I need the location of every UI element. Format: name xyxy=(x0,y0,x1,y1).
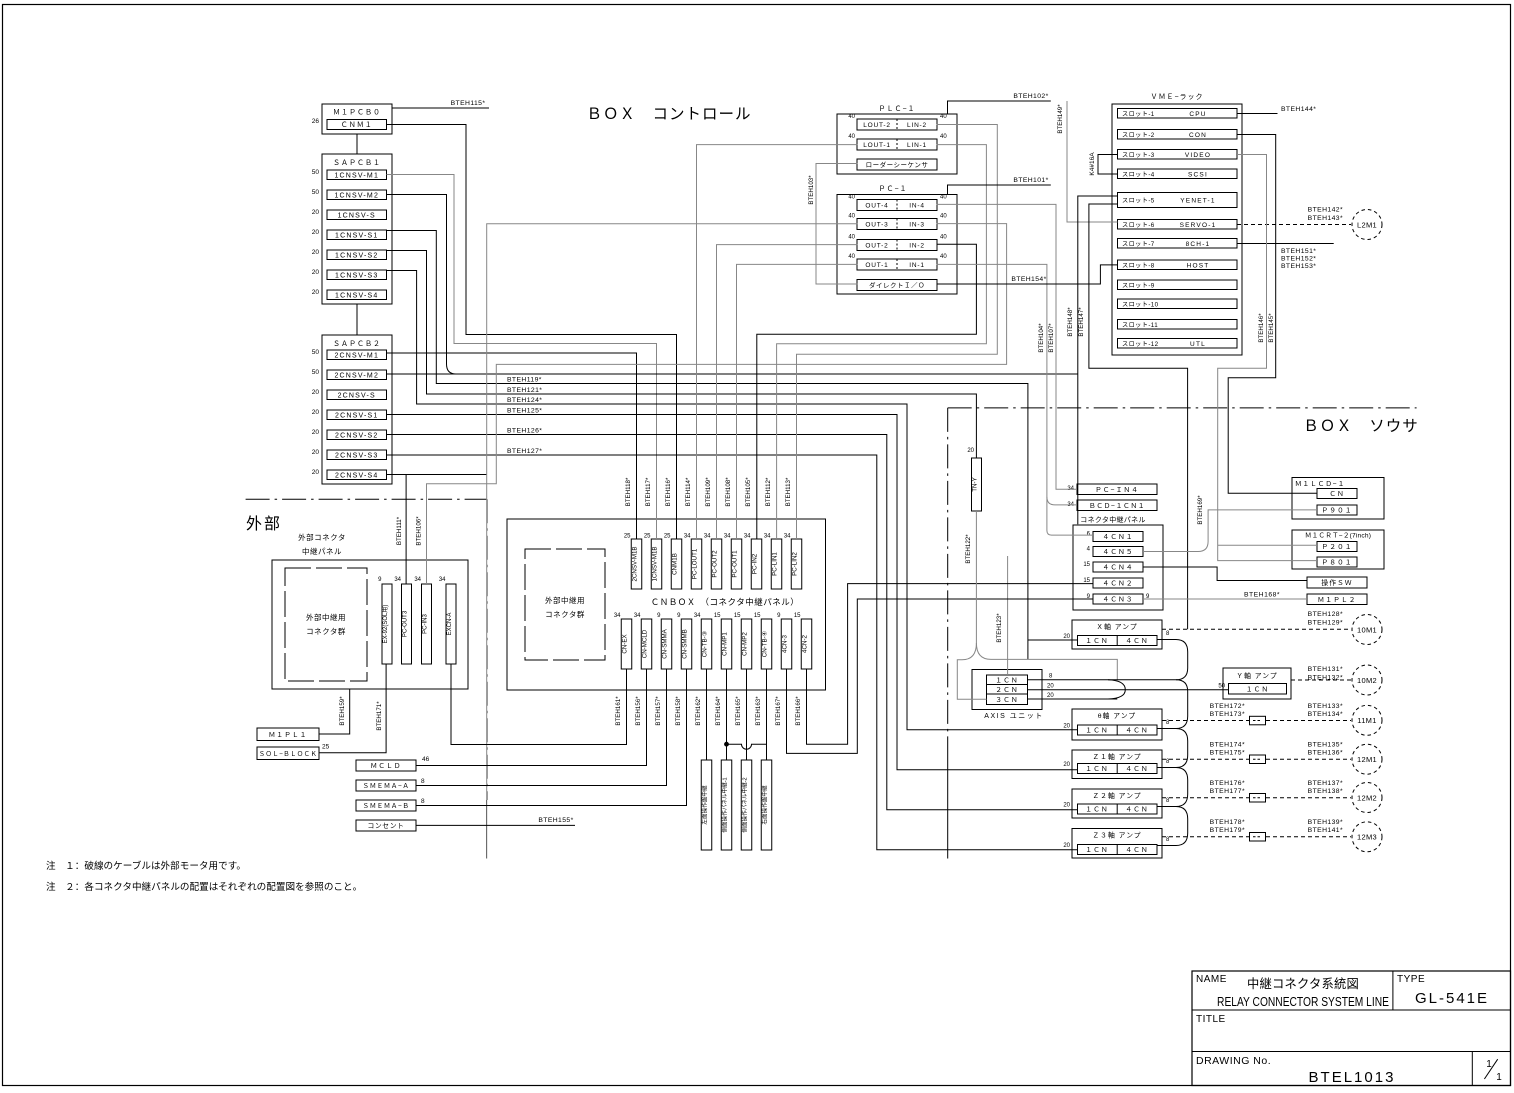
svg-text:BTEH118*: BTEH118* xyxy=(625,477,632,506)
svg-text:Ｍ１ＣＲＴ−２(7inch): Ｍ１ＣＲＴ−２(7inch) xyxy=(1305,533,1371,540)
svg-text:IN-3: IN-3 xyxy=(909,222,924,229)
svg-text:25: 25 xyxy=(644,534,651,540)
unit 側面操作パネル中継-2 xyxy=(741,760,752,850)
svg-text:BTEH163*: BTEH163* xyxy=(755,696,762,726)
wire TN-Y down BTEH122* xyxy=(975,511,977,643)
svg-text:ＰＣ−１: ＰＣ−１ xyxy=(878,185,907,193)
svg-text:Ｍ１ＰＣＢ０: Ｍ１ＰＣＢ０ xyxy=(333,109,381,117)
svg-text:BTEH136*: BTEH136* xyxy=(1308,750,1343,757)
connector 1CNSV-S4 xyxy=(327,290,387,300)
svg-text:ＢＣＤ−１ＣＮ１: ＢＣＤ−１ＣＮ１ xyxy=(1089,503,1145,510)
svg-text:BTEH149*: BTEH149* xyxy=(1057,104,1064,134)
slot スロット-2 CON xyxy=(1118,130,1238,140)
connector CN-TB-③ xyxy=(701,619,712,669)
wire EXCN-A to CN-EX (BTEH161*) xyxy=(451,664,627,745)
svg-text:SCSI: SCSI xyxy=(1188,171,1208,178)
unit 左面操作盤中継 xyxy=(701,760,712,850)
svg-text:VIDEO: VIDEO xyxy=(1185,152,1211,159)
svg-text:BTEH119*: BTEH119* xyxy=(507,377,542,384)
svg-text:4CN-2: 4CN-2 xyxy=(802,635,809,653)
svg-text:34: 34 xyxy=(634,613,641,619)
svg-text:ＣＮＭ１: ＣＮＭ１ xyxy=(341,121,373,129)
svg-text:50: 50 xyxy=(312,369,320,376)
svg-text:４ＣＮ: ４ＣＮ xyxy=(1125,766,1148,773)
svg-text:BTEH102*: BTEH102* xyxy=(1013,93,1048,100)
svg-text:BTEH145*: BTEH145* xyxy=(1268,313,1275,343)
dashed box external relay connector group xyxy=(285,568,367,681)
wire brace arc lower xyxy=(1108,690,1125,699)
svg-text:PC-IN2: PC-IN2 xyxy=(752,553,759,574)
svg-text:20: 20 xyxy=(1063,843,1070,849)
connector 1CNSV-M1B xyxy=(651,539,662,589)
motor 11M1 xyxy=(1352,705,1382,735)
dashed cable SERVO-1 to L2M1 xyxy=(1237,224,1351,226)
connector P801 xyxy=(1317,557,1357,567)
unit Z2-axis amp xyxy=(1072,789,1162,818)
svg-text:４ＣＮ: ４ＣＮ xyxy=(1125,638,1148,645)
connector 1CNSV-S3 xyxy=(327,270,387,280)
unit Z3-axis amp xyxy=(1072,829,1162,859)
svg-text:CN-MP2: CN-MP2 xyxy=(742,632,749,656)
wire 1CNSV-S3 BTEH124* bus to theta amp 1CN xyxy=(387,271,1078,730)
connector PC-OUT3 xyxy=(402,584,412,664)
svg-text:コネクタ群: コネクタ群 xyxy=(545,609,585,619)
wire CN-MP2 down xyxy=(746,669,748,760)
wire BTEH115* from M1PCB0 xyxy=(392,107,489,109)
svg-text:外部: 外部 xyxy=(246,515,282,533)
svg-text:15: 15 xyxy=(714,613,721,619)
wire 2CNSV-S1 BTEH125* bus to Z1 amp 1CN xyxy=(387,415,1078,770)
svg-text:40: 40 xyxy=(940,134,947,140)
slot スロット-12 UTL xyxy=(1118,339,1238,349)
svg-text:11M1: 11M1 xyxy=(1357,716,1376,725)
connector 4CN-2 xyxy=(801,619,812,669)
svg-text:OUT-4: OUT-4 xyxy=(865,203,888,210)
wire chain arc down to theta amp 4CN xyxy=(1157,680,1187,729)
connector PC-LIN1 xyxy=(771,539,782,589)
svg-text:注 ２：各コネクタ中継パネルの配置はそれぞれの配置図を参照の: 注 ２：各コネクタ中継パネルの配置はそれぞれの配置図を参照のこと。 xyxy=(46,881,362,893)
motor 10M2 xyxy=(1352,665,1382,695)
svg-text:コネクタ群: コネクタ群 xyxy=(306,626,346,636)
connector ４ＣＮ１ xyxy=(1093,532,1143,542)
block loader sequencer xyxy=(857,159,937,170)
svg-text:側面操作パネル中継-2: 側面操作パネル中継-2 xyxy=(741,777,749,832)
svg-text:１ＣＮ: １ＣＮ xyxy=(1085,728,1108,735)
svg-text:40: 40 xyxy=(848,114,855,120)
svg-text:Ｚ１軸 アンプ: Ｚ１軸 アンプ xyxy=(1092,752,1141,761)
unit M1LCD-1 xyxy=(1292,478,1384,520)
svg-text:CPU: CPU xyxy=(1189,111,1206,118)
page fraction slash xyxy=(1484,1059,1497,1079)
svg-text:BTEH111*: BTEH111* xyxy=(396,516,403,545)
svg-text:34: 34 xyxy=(394,577,401,583)
wire 4CN5 to P901 (BTEH169*) xyxy=(1143,510,1317,552)
svg-text:15: 15 xyxy=(794,613,801,619)
svg-text:ＳＡＰＣＢ１: ＳＡＰＣＢ１ xyxy=(333,159,381,167)
unit M1PL1 xyxy=(257,728,319,741)
svg-text:40: 40 xyxy=(848,195,855,201)
svg-text:左面操作盤中継: 左面操作盤中継 xyxy=(701,785,709,825)
svg-text:BTEH126*: BTEH126* xyxy=(507,428,542,435)
svg-text:４ＣＮ: ４ＣＮ xyxy=(1125,807,1148,814)
svg-text:IN-2: IN-2 xyxy=(909,243,924,250)
svg-text:Ｚ２軸 アンプ: Ｚ２軸 アンプ xyxy=(1092,791,1141,800)
svg-text:PC-LIN1: PC-LIN1 xyxy=(772,552,779,576)
svg-text:BTEH135*: BTEH135* xyxy=(1308,742,1343,749)
svg-text:スロット-1: スロット-1 xyxy=(1122,111,1155,118)
svg-text:BTEH166*: BTEH166* xyxy=(795,696,802,726)
wire branch to X-axis amp 1CN xyxy=(1028,639,1078,641)
svg-text:CN-SMMB: CN-SMMB xyxy=(682,629,689,659)
svg-text:20: 20 xyxy=(312,449,320,456)
svg-text:BTEH133*: BTEH133* xyxy=(1308,703,1343,710)
connector 2CNSV-S4 xyxy=(327,470,387,480)
connector PC-OUT2 xyxy=(711,539,722,589)
svg-text:１ＣＮ: １ＣＮ xyxy=(1085,638,1108,645)
connector CN xyxy=(1317,489,1357,499)
wire VIDEO to P801 (BTEH146*) xyxy=(1218,155,1317,561)
svg-text:4CN-3: 4CN-3 xyxy=(782,635,789,653)
svg-text:34: 34 xyxy=(724,534,731,540)
unit M1CRT-2(7inch) xyxy=(1292,530,1384,569)
connector ４ＣＮ５ xyxy=(1093,547,1143,557)
unit SOL-BLOCK xyxy=(257,747,319,760)
connector OUT-4/IN-4 xyxy=(857,200,937,211)
svg-text:BTEH128*: BTEH128* xyxy=(1308,611,1343,618)
connector 1CNSV-S1 xyxy=(327,230,387,240)
svg-text:40: 40 xyxy=(940,114,947,120)
svg-text:ＳＡＰＣＢ２: ＳＡＰＣＢ２ xyxy=(333,340,381,348)
boundary dash-dot horizontal (BOX sousa) xyxy=(948,407,1417,409)
svg-text:20: 20 xyxy=(312,469,320,476)
connector CN-TB-④ xyxy=(761,619,772,669)
wire SAPCB1 to SAPCB2 xyxy=(356,304,358,335)
svg-text:1: 1 xyxy=(1496,1072,1502,1083)
unit SAPCB1 xyxy=(322,154,392,304)
svg-text:BTEH142*: BTEH142* xyxy=(1308,207,1343,214)
svg-text:40: 40 xyxy=(848,254,855,260)
connector 1CNSV-S xyxy=(327,210,387,220)
svg-text:TYPE: TYPE xyxy=(1397,974,1425,985)
svg-text:CON: CON xyxy=(1189,132,1207,139)
connector 2CNSV-S1 xyxy=(327,410,387,420)
svg-text:10M1: 10M1 xyxy=(1357,625,1377,634)
svg-text:スロット-3: スロット-3 xyxy=(1122,152,1155,159)
connector PC-IN2 xyxy=(751,539,762,589)
svg-text:34: 34 xyxy=(744,534,751,540)
svg-text:PC-OUT3: PC-OUT3 xyxy=(403,610,409,637)
wire brace arc upper (merge into Y bundle) xyxy=(1108,680,1125,690)
wire SOL-BLOCK BTEH171* to EX-92 xyxy=(319,664,386,753)
svg-text:HOST: HOST xyxy=(1187,262,1210,269)
svg-text:スロット-4: スロット-4 xyxy=(1122,171,1155,178)
svg-text:46: 46 xyxy=(422,756,430,763)
svg-text:BTEH171*: BTEH171* xyxy=(376,701,383,731)
connector CN-MP2 xyxy=(741,619,752,669)
svg-text:BTEH107*: BTEH107* xyxy=(1048,323,1055,353)
svg-text:１ＣＮ: １ＣＮ xyxy=(1085,847,1108,854)
svg-text:20: 20 xyxy=(1063,803,1070,809)
connector PC-IN4 xyxy=(1077,484,1157,495)
connector 1CNSV-S2 xyxy=(327,250,387,260)
svg-text:BTEH106*: BTEH106* xyxy=(416,516,423,546)
unit Y-axis amp xyxy=(1223,668,1291,699)
wire SMEMA-B to CN-SMMB (BTEH158*) xyxy=(416,669,687,806)
svg-text:CN-EX: CN-EX xyxy=(622,634,629,653)
svg-text:UTL: UTL xyxy=(1190,341,1206,348)
svg-text:BTEH177*: BTEH177* xyxy=(1210,788,1245,795)
wire branch BTEH111* to PC-OUT3 xyxy=(405,475,407,585)
svg-text:25: 25 xyxy=(322,744,330,751)
svg-text:注 １：破線のケーブルは外部モータ用です。: 注 １：破線のケーブルは外部モータ用です。 xyxy=(46,860,246,872)
connector CNM1 xyxy=(327,120,387,130)
svg-text:BTEH105*: BTEH105* xyxy=(745,477,752,507)
svg-text:20: 20 xyxy=(312,429,320,436)
svg-text:BTEH152*: BTEH152* xyxy=(1281,256,1316,263)
svg-text:15: 15 xyxy=(734,613,741,619)
svg-text:４ＣＮ１: ４ＣＮ１ xyxy=(1102,534,1133,541)
dashed cable Y amp to 10M2 xyxy=(1291,679,1351,681)
connector CN-SMMB xyxy=(681,619,692,669)
svg-text:BTEH127*: BTEH127* xyxy=(507,448,542,455)
svg-text:20: 20 xyxy=(1063,634,1070,640)
connector BCD-1CN1 xyxy=(1077,500,1157,511)
svg-text:2CNSV-S1: 2CNSV-S1 xyxy=(335,412,378,419)
connector OUT-1/IN-1 xyxy=(857,259,937,270)
wire 1CNSV-M1 to 1CNSV-M1B (BTEH117*) xyxy=(387,175,657,540)
wire BTEH149* to SERVO-1 xyxy=(1067,101,1118,222)
svg-text:BTEH156*: BTEH156* xyxy=(635,696,642,726)
svg-text:BTEH148*: BTEH148* xyxy=(1067,307,1074,337)
connector CN-SMMA xyxy=(661,619,672,669)
connector LOUT-1/LIN-1 xyxy=(857,139,937,150)
svg-text:EXCN-A: EXCN-A xyxy=(447,613,453,636)
dashed cable X amp to 10M1 xyxy=(1162,628,1350,630)
connector CN-MP1 xyxy=(721,619,732,669)
svg-text:1CNSV-M1B: 1CNSV-M1B xyxy=(652,546,659,581)
svg-text:３ＣＮ: ３ＣＮ xyxy=(995,697,1018,704)
boundary solid lower segment left xyxy=(486,800,488,859)
svg-text:40: 40 xyxy=(940,254,947,260)
svg-text:BTEH167*: BTEH167* xyxy=(775,696,782,726)
svg-text:BTEH112*: BTEH112* xyxy=(765,477,772,506)
wire branch arc to BCD-1CN1 xyxy=(1047,497,1077,505)
svg-text:LIN-1: LIN-1 xyxy=(907,142,927,149)
svg-text:ＢＯＸ コントロール: ＢＯＸ コントロール xyxy=(586,106,751,123)
svg-text:TN-Y: TN-Y xyxy=(972,477,979,491)
svg-text:34: 34 xyxy=(784,534,791,540)
unit SMEMA-A xyxy=(356,780,416,791)
motor 12M1 xyxy=(1352,744,1382,774)
svg-text:スロット-12: スロット-12 xyxy=(1122,341,1159,348)
svg-text:Ｙ軸 アンプ: Ｙ軸 アンプ xyxy=(1236,671,1277,680)
connector 2CNSV-S2 xyxy=(327,430,387,440)
wire loader sequencer to direct I/O (BTEH103*) xyxy=(816,164,857,285)
svg-text:15: 15 xyxy=(754,613,761,619)
connector 2CNSV-M2 xyxy=(327,370,387,380)
svg-text:Ｚ３軸 アンプ: Ｚ３軸 アンプ xyxy=(1092,831,1141,840)
svg-text:PC-LOUT1: PC-LOUT1 xyxy=(692,548,699,579)
unit operation SW xyxy=(1307,577,1367,588)
wire M1PCB0 to SAPCB1 xyxy=(356,134,358,154)
svg-text:34: 34 xyxy=(764,534,771,540)
svg-text:2CNSV-S2: 2CNSV-S2 xyxy=(335,432,378,439)
svg-text:BTEH179*: BTEH179* xyxy=(1210,827,1245,834)
svg-text:１ＣＮ: １ＣＮ xyxy=(1246,686,1269,693)
svg-text:ＶＭＥ−ラック: ＶＭＥ−ラック xyxy=(1150,93,1203,101)
unit SMEMA-B xyxy=(356,800,416,811)
wire direct I/O BTEH154* to HOST xyxy=(937,265,1118,284)
svg-text:１ＣＮ: １ＣＮ xyxy=(1085,807,1108,814)
unit CN BOX (connector relay panel) xyxy=(507,519,826,690)
svg-text:Ｍ１ＰＬ２: Ｍ１ＰＬ２ xyxy=(1318,597,1357,604)
wire 4CN4 to operation SW xyxy=(1143,567,1307,581)
wire IN-1 to 4CN1 (BTEH104*) xyxy=(937,264,1093,535)
svg-text:PC-OUT1: PC-OUT1 xyxy=(732,550,739,578)
wire LOUT-1 to PC-LOUT1 (BTEH114*) xyxy=(697,145,858,539)
svg-text:DRAWING No.: DRAWING No. xyxy=(1196,1055,1271,1067)
boundary dash-dot vertical right xyxy=(947,408,949,750)
svg-text:ＣＮＢＯＸ （コネクタ中継パネル）: ＣＮＢＯＸ （コネクタ中継パネル） xyxy=(651,597,799,607)
motor 10M1 xyxy=(1352,615,1382,645)
wire branch to P201 xyxy=(1218,544,1317,546)
connector CN-EX xyxy=(621,619,632,669)
svg-text:右面操作盤中継: 右面操作盤中継 xyxy=(761,785,769,825)
wire 2CNSV-S2 BTEH126* bus to Z2 amp 1CN xyxy=(387,435,1078,810)
svg-text:BTEH113*: BTEH113* xyxy=(785,477,792,506)
svg-text:BTEH117*: BTEH117* xyxy=(645,477,652,506)
svg-text:2CNSV-M1B: 2CNSV-M1B xyxy=(632,546,639,581)
svg-text:TITLE: TITLE xyxy=(1196,1014,1226,1025)
svg-text:BTEH139*: BTEH139* xyxy=(1308,819,1343,826)
unit M1PL2 xyxy=(1307,594,1367,605)
svg-text:BTEH174*: BTEH174* xyxy=(1210,742,1245,749)
svg-text:BTEH173*: BTEH173* xyxy=(1210,711,1245,718)
svg-text:40: 40 xyxy=(848,235,855,241)
svg-text:26: 26 xyxy=(312,118,320,125)
svg-text:ＣＮ: ＣＮ xyxy=(1329,491,1345,498)
wire CPU BTEH144* xyxy=(1237,113,1278,115)
unit 右面操作盤中継 xyxy=(761,760,772,850)
unit MCLD xyxy=(356,760,416,771)
svg-text:スロット-7: スロット-7 xyxy=(1122,241,1155,248)
svg-text:CN-MCLD: CN-MCLD xyxy=(642,629,649,658)
wire BTEH101* from PC-1 xyxy=(948,185,1051,195)
svg-text:CN-TB-③: CN-TB-③ xyxy=(702,631,709,658)
svg-text:ＢＯＸ ソウサ: ＢＯＸ ソウサ xyxy=(1303,417,1419,435)
svg-text:BTEH143*: BTEH143* xyxy=(1308,215,1343,222)
motor 12M3 xyxy=(1352,822,1382,852)
connector LOUT-2/LIN-2 xyxy=(857,119,937,130)
svg-text:34: 34 xyxy=(614,613,621,619)
svg-text:Ｐ２０１: Ｐ２０１ xyxy=(1321,544,1352,551)
svg-text:BTEH175*: BTEH175* xyxy=(1210,750,1245,757)
wire IN-2 to PC-IN2 (BTEH105*) xyxy=(757,244,977,539)
svg-text:外部中継用: 外部中継用 xyxy=(306,612,346,622)
svg-text:OUT-1: OUT-1 xyxy=(865,262,888,269)
boundary dash-dot horizontal (external area) xyxy=(246,498,487,500)
connector 1CNSV-M2 xyxy=(327,190,387,200)
svg-text:１ＣＮ: １ＣＮ xyxy=(1085,766,1108,773)
wire TN-Y branch joining AXIS bundle xyxy=(976,643,1117,680)
wire SMEMA-A to CN-SMMA (BTEH157*) xyxy=(416,669,667,786)
wire AXIS 3CN line xyxy=(1028,698,1118,700)
connector 2CNSV-M1 xyxy=(327,350,387,360)
svg-text:ローダーシーケンサ: ローダーシーケンサ xyxy=(866,160,929,169)
svg-text:50: 50 xyxy=(312,189,320,196)
svg-text:GL-541E: GL-541E xyxy=(1415,990,1489,1007)
connector EXCN-A xyxy=(446,584,456,664)
bracket K4#16A linking slot-3 and slot-4 xyxy=(1098,155,1118,175)
unit M1PCB0 xyxy=(322,104,392,134)
motor 12M2 xyxy=(1352,783,1382,813)
svg-text:YENET-1: YENET-1 xyxy=(1180,198,1216,205)
svg-text:スロット-6: スロット-6 xyxy=(1122,222,1155,229)
slot スロット-3 VIDEO xyxy=(1118,150,1238,160)
svg-text:20: 20 xyxy=(312,289,320,296)
dashed cable theta amp to 11M1 xyxy=(1162,720,1249,722)
wire IN-3 to PC-IN3 (BTEH106*) xyxy=(427,224,1007,584)
svg-text:LOUT-1: LOUT-1 xyxy=(863,142,891,149)
svg-text:ＳＯＬ−ＢＬＯＣＫ: ＳＯＬ−ＢＬＯＣＫ xyxy=(259,751,318,758)
svg-text:20: 20 xyxy=(312,229,320,236)
wire 2CNSV-M1 to 2CNSV-M1B (BTEH118*) xyxy=(387,353,637,539)
wire AXIS 2CN to Y amp 1CN (50pin) xyxy=(1028,689,1229,691)
svg-text:IN-4: IN-4 xyxy=(909,203,924,210)
svg-text:BTEH101*: BTEH101* xyxy=(1013,177,1048,184)
svg-text:外部コネクタ: 外部コネクタ xyxy=(298,532,346,542)
svg-text:50: 50 xyxy=(312,169,320,176)
svg-text:操作ＳＷ: 操作ＳＷ xyxy=(1321,578,1352,587)
svg-text:BTEH124*: BTEH124* xyxy=(507,397,542,404)
svg-text:ＰＬＣ−１: ＰＬＣ−１ xyxy=(878,105,915,113)
wire 2CNSV-M2 bus (joins BTEH148 riser) xyxy=(387,373,1078,375)
slot スロット-5 YENET-1 xyxy=(1118,193,1238,208)
wire chain Z1 to Z2 4CN xyxy=(1157,768,1187,807)
svg-text:2CNSV-M1: 2CNSV-M1 xyxy=(334,352,379,359)
svg-text:BTEH123*: BTEH123* xyxy=(996,613,1003,643)
dashed box external relay connector group (inside CN BOX) xyxy=(525,549,605,660)
svg-text:BTEH169*: BTEH169* xyxy=(1197,495,1204,525)
block direct I/O xyxy=(857,280,937,291)
svg-text:外部中継用: 外部中継用 xyxy=(545,595,585,605)
svg-text:BTEH132*: BTEH132* xyxy=(1308,675,1343,682)
wire 4CN3 to M1PL2 (BTEH168*) xyxy=(1143,598,1307,600)
svg-text:BTEH153*: BTEH153* xyxy=(1281,263,1316,270)
unit AXIS xyxy=(972,670,1042,710)
svg-text:BTEH131*: BTEH131* xyxy=(1308,666,1343,673)
connector TN-Y xyxy=(972,458,982,511)
wire BTEH102* from PLC-1 xyxy=(948,101,1051,114)
svg-text:34: 34 xyxy=(694,613,701,619)
slot スロット-8 HOST xyxy=(1118,260,1238,270)
svg-text:L2M1: L2M1 xyxy=(1357,220,1377,229)
svg-text:スロット-2: スロット-2 xyxy=(1122,132,1155,139)
svg-text:ＳＭＥＭＡ−Ｂ: ＳＭＥＭＡ−Ｂ xyxy=(363,803,410,810)
svg-text:40: 40 xyxy=(848,214,855,220)
wire 1CNSV-S2 BTEH121* bus to TN-Y xyxy=(387,251,977,459)
connector PC-IN3 xyxy=(422,584,432,664)
svg-text:1CNSV-S: 1CNSV-S xyxy=(338,212,376,219)
svg-text:20: 20 xyxy=(312,409,320,416)
svg-text:1CNSV-S1: 1CNSV-S1 xyxy=(335,232,378,239)
svg-text:BTEH137*: BTEH137* xyxy=(1308,780,1343,787)
slot スロット-9 xyxy=(1118,280,1238,290)
svg-text:BTEH162*: BTEH162* xyxy=(695,696,702,726)
unit outlet (konsento) xyxy=(356,820,416,831)
svg-text:PC-OUT2: PC-OUT2 xyxy=(712,550,719,578)
connector 2CN xyxy=(987,685,1028,695)
